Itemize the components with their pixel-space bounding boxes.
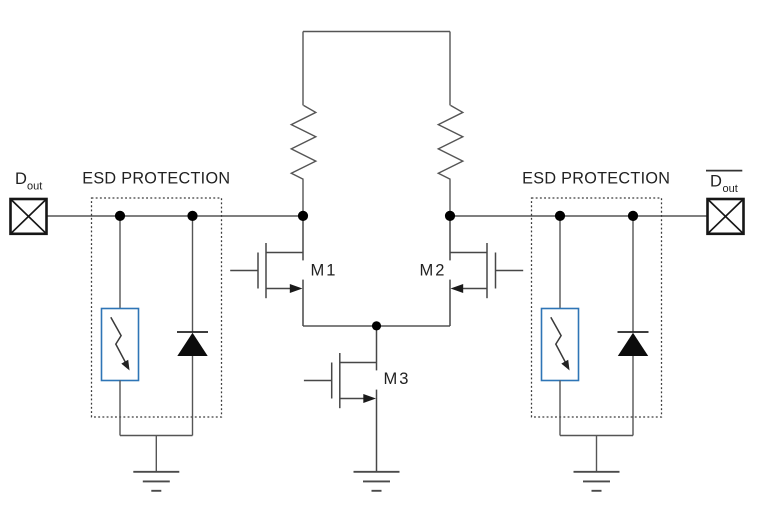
node: common source / M3 drain junction <box>372 321 381 330</box>
label Dout <box>15 170 42 193</box>
ground (left ESD) <box>133 472 179 491</box>
wire: Doutb node down to right TVS clamp <box>559 216 561 309</box>
wire: common source rail of M1/M2 <box>303 325 450 327</box>
TVS clamp right (blue box with lightning-bolt arrow) <box>542 309 579 381</box>
svg-text:out: out <box>27 181 42 193</box>
wire: left ESD bottom rail <box>120 435 193 437</box>
wire: left ESD bottom rail to ground <box>155 436 157 472</box>
resistor R1 <box>291 105 316 179</box>
ground (M3 source) <box>354 472 400 491</box>
svg-text:out: out <box>723 183 738 195</box>
pad Doutb (I/O pad symbol) <box>708 199 744 234</box>
svg-text:M1: M1 <box>311 262 338 280</box>
wire: right ESD bottom rail <box>560 435 633 437</box>
svg-text:M3: M3 <box>384 370 411 388</box>
svg-text:M2: M2 <box>420 262 447 280</box>
wire: right TVS clamp to bottom rail <box>559 381 561 436</box>
transistor M2 (NMOS, gate on right) <box>450 216 523 326</box>
wire: left ESD diode anode to bottom rail <box>192 356 194 436</box>
wire: Dout net horizontal <box>48 215 304 217</box>
transistor M3 (NMOS tail current source) <box>304 326 377 472</box>
wire: right ESD diode anode to bottom rail <box>632 356 634 436</box>
wire: rail to R2 top <box>449 32 451 106</box>
wire: Doutb net horizontal <box>450 215 707 217</box>
wire: Doutb node down to right ESD diode cathode <box>632 216 634 332</box>
node: Dout / R1 / M1 drain junction <box>298 211 308 221</box>
label Doutb (D with overline, subscript out) <box>706 171 742 196</box>
wire: rail to R1 top <box>302 32 304 106</box>
node: Doutb / right TVS junction <box>555 211 565 221</box>
pad Dout (I/O pad symbol) <box>11 199 47 234</box>
wire: Dout node down to left TVS clamp <box>119 216 121 309</box>
wire: R2 bottom to Doutb node <box>449 179 451 216</box>
svg-text:ESD PROTECTION: ESD PROTECTION <box>82 169 230 187</box>
ground (right ESD) <box>574 472 620 491</box>
wire: top supply rail <box>303 31 450 33</box>
transistor M1 (NMOS, gate on left) <box>230 216 303 326</box>
node: Doutb / R2 / M2 drain junction <box>445 211 455 221</box>
svg-text:D: D <box>710 172 722 190</box>
wire: Dout node down to left ESD diode cathode <box>192 216 194 332</box>
svg-text:D: D <box>15 170 27 188</box>
node: Dout / left diode junction <box>187 211 197 221</box>
ESD protection block outline (right, dashed) <box>532 198 662 417</box>
node: Dout / left TVS junction <box>115 211 125 221</box>
ESD protection block outline (left, dashed) <box>92 198 222 417</box>
resistor R2 <box>438 105 463 179</box>
wire: right ESD bottom rail to ground <box>596 436 598 472</box>
diode D1 (left ESD diode) <box>177 332 208 356</box>
TVS clamp left (blue box with lightning-bolt arrow) <box>102 309 139 381</box>
diode D2 (right ESD diode) <box>618 332 649 356</box>
node: Doutb / right diode junction <box>628 211 638 221</box>
wire: left TVS clamp to bottom rail <box>119 381 121 436</box>
svg-text:ESD PROTECTION: ESD PROTECTION <box>522 169 670 187</box>
wire: R1 bottom to Dout node <box>302 179 304 216</box>
